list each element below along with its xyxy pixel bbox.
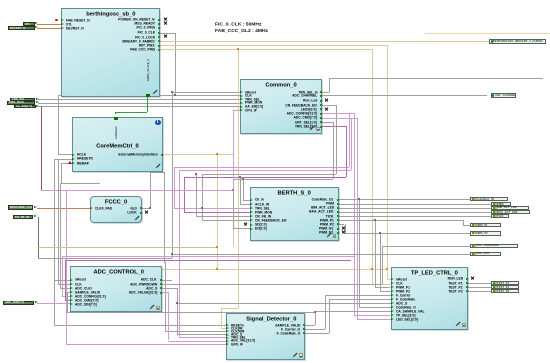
junction bbox=[216, 246, 218, 248]
wire bbox=[380, 233, 381, 291]
port PWM bbox=[491, 202, 511, 206]
wire bbox=[66, 190, 67, 344]
wire bbox=[320, 118, 351, 119]
wire bbox=[184, 177, 346, 178]
wire bbox=[38, 217, 39, 258]
X mark bbox=[341, 226, 345, 230]
wire bbox=[168, 341, 226, 342]
junction bbox=[149, 207, 151, 209]
wire bbox=[463, 225, 470, 226]
wire bbox=[345, 233, 471, 234]
wire bbox=[37, 303, 70, 304]
junction bbox=[195, 173, 197, 175]
junction bbox=[232, 189, 234, 191]
wire bbox=[320, 95, 487, 96]
wire bbox=[58, 284, 70, 285]
wire bbox=[243, 179, 244, 199]
block FCCC_0 bbox=[90, 196, 142, 223]
wire bbox=[38, 247, 217, 248]
junction bbox=[379, 232, 381, 234]
wire bbox=[466, 283, 491, 284]
wire bbox=[333, 122, 334, 180]
port ADC_CHANNEL bbox=[491, 93, 516, 97]
wire bbox=[233, 179, 234, 228]
port TRN_SEL bbox=[10, 98, 35, 101]
wire bbox=[351, 118, 352, 170]
port PWM_P1 bbox=[470, 223, 501, 228]
wire bbox=[67, 292, 71, 293]
wire bbox=[425, 33, 550, 34]
wire bbox=[58, 159, 59, 283]
wire bbox=[329, 299, 330, 333]
port BERTH_CLK bbox=[8, 205, 33, 210]
wire bbox=[58, 95, 59, 154]
wire bbox=[38, 99, 240, 100]
wire bbox=[147, 95, 148, 112]
junction bbox=[242, 178, 244, 180]
X mark bbox=[341, 230, 345, 234]
junction bbox=[216, 153, 218, 155]
wire bbox=[337, 224, 345, 225]
wire bbox=[337, 204, 491, 205]
block ADC_CONTROL_0 bbox=[70, 266, 162, 312]
wire bbox=[196, 174, 197, 216]
wire bbox=[233, 154, 234, 246]
wire bbox=[150, 172, 151, 208]
wire bbox=[466, 291, 491, 292]
junction bbox=[171, 91, 173, 93]
wire bbox=[357, 319, 391, 320]
wire bbox=[38, 103, 240, 104]
port MMUART_0_FABRIC bbox=[489, 39, 546, 44]
wire bbox=[329, 299, 391, 300]
wire bbox=[382, 246, 383, 284]
junction bbox=[216, 268, 218, 270]
wire bbox=[179, 337, 226, 338]
X mark bbox=[163, 18, 167, 22]
junction bbox=[239, 176, 241, 178]
wire bbox=[320, 113, 349, 114]
wire bbox=[240, 177, 241, 204]
wire bbox=[320, 105, 336, 106]
wire bbox=[466, 287, 491, 288]
wire bbox=[174, 167, 175, 207]
port TEST_P3 bbox=[491, 289, 519, 293]
wire bbox=[303, 329, 325, 330]
wire bbox=[37, 28, 61, 29]
block Signal_Detector_0 bbox=[226, 313, 305, 361]
wire bbox=[337, 220, 463, 221]
wire bbox=[54, 159, 72, 160]
junction bbox=[386, 268, 388, 270]
wire bbox=[320, 122, 333, 123]
wire bbox=[346, 126, 347, 177]
wire bbox=[337, 208, 491, 209]
junction bbox=[314, 311, 316, 313]
wire bbox=[320, 92, 329, 93]
wire bbox=[320, 113, 354, 114]
wire bbox=[238, 49, 239, 308]
wire bbox=[61, 163, 72, 164]
junction bbox=[176, 302, 178, 304]
wire bbox=[66, 344, 226, 345]
wire bbox=[179, 170, 180, 338]
block Common_0 bbox=[240, 79, 322, 134]
junction bbox=[171, 253, 173, 255]
port TEST_P1 bbox=[491, 281, 519, 285]
wire bbox=[337, 199, 470, 200]
wire bbox=[145, 269, 387, 270]
wire bbox=[41, 190, 233, 191]
wire bbox=[179, 170, 352, 171]
wire bbox=[165, 262, 166, 331]
wire bbox=[54, 280, 70, 281]
wire bbox=[160, 280, 172, 281]
wire bbox=[329, 78, 330, 92]
wire bbox=[243, 200, 251, 201]
junction bbox=[358, 198, 360, 200]
wire bbox=[345, 224, 346, 233]
wire bbox=[177, 288, 178, 334]
port TICK bbox=[491, 214, 509, 218]
wire bbox=[202, 220, 251, 221]
wire bbox=[164, 262, 165, 263]
wire bbox=[158, 49, 372, 50]
wire bbox=[66, 312, 315, 313]
REMAP marker bbox=[68, 161, 72, 164]
wire bbox=[65, 260, 66, 300]
wire bbox=[221, 328, 226, 329]
wire bbox=[160, 284, 382, 285]
wire bbox=[38, 106, 240, 107]
wire bbox=[67, 292, 68, 312]
wire bbox=[354, 113, 355, 315]
wire bbox=[158, 33, 175, 34]
wire bbox=[320, 118, 357, 119]
wire bbox=[58, 154, 72, 155]
wire bbox=[174, 208, 251, 209]
wire bbox=[172, 92, 241, 93]
wire bbox=[303, 325, 315, 326]
wire bbox=[38, 258, 172, 259]
wire bbox=[160, 292, 168, 293]
wire bbox=[359, 199, 360, 307]
wire bbox=[233, 110, 241, 111]
junction bbox=[201, 207, 203, 209]
junction bbox=[237, 48, 239, 50]
wire bbox=[320, 126, 346, 127]
annotation text bbox=[215, 21, 268, 34]
wire bbox=[60, 183, 61, 288]
block TP_LED_CTRL_0 bbox=[391, 267, 469, 330]
wire bbox=[65, 300, 71, 301]
wire bbox=[54, 159, 55, 325]
wire bbox=[115, 112, 147, 113]
wire bbox=[60, 183, 100, 184]
wire bbox=[202, 174, 336, 175]
wire bbox=[336, 105, 337, 174]
wire bbox=[196, 216, 250, 217]
wire bbox=[240, 204, 250, 205]
wire bbox=[233, 179, 333, 180]
wire bbox=[160, 288, 177, 289]
wire bbox=[62, 256, 354, 257]
block berthingosc_sb_0 bbox=[61, 8, 160, 97]
port PWR_MON bbox=[7, 101, 36, 104]
wire bbox=[337, 216, 491, 217]
wire bbox=[158, 41, 489, 42]
junction bbox=[374, 219, 376, 221]
wire bbox=[61, 163, 62, 183]
block CoreMemCtrl_0 bbox=[72, 117, 163, 172]
wire bbox=[65, 260, 352, 261]
wire bbox=[375, 220, 376, 287]
port PWM_P2 bbox=[470, 231, 501, 236]
port ADC_DIN bbox=[3, 301, 34, 306]
wire bbox=[172, 92, 173, 258]
wire bbox=[354, 315, 391, 316]
wire bbox=[202, 174, 203, 220]
block BERTH_S_0 bbox=[250, 187, 338, 240]
wire bbox=[463, 220, 464, 225]
X mark bbox=[144, 211, 148, 215]
junction bbox=[174, 94, 176, 96]
X mark bbox=[163, 35, 167, 39]
wire bbox=[325, 295, 326, 329]
port CodeRate_O1 bbox=[470, 197, 508, 202]
wire bbox=[349, 113, 350, 167]
port DEVRST_N bbox=[8, 26, 35, 30]
wire bbox=[161, 154, 233, 155]
wire bbox=[233, 228, 250, 229]
wire bbox=[168, 292, 169, 340]
wire bbox=[164, 172, 165, 263]
port BAA_ACT_LED bbox=[491, 210, 530, 214]
port ADC_CLK bbox=[470, 252, 501, 257]
port ADC_PWRDOWN bbox=[470, 244, 518, 249]
wire bbox=[184, 212, 251, 213]
port AA_EN bbox=[14, 105, 36, 108]
port XTL bbox=[23, 22, 35, 26]
wire bbox=[177, 334, 226, 335]
unconnected marker bbox=[55, 19, 58, 22]
wire bbox=[174, 167, 349, 168]
wire bbox=[325, 295, 391, 296]
wire bbox=[140, 208, 150, 209]
wire bbox=[184, 177, 185, 212]
wire bbox=[115, 112, 116, 114]
X mark bbox=[471, 277, 475, 281]
wire bbox=[357, 118, 358, 320]
wire bbox=[58, 95, 240, 96]
port CR_FB_IN bbox=[13, 215, 33, 219]
X mark bbox=[244, 222, 248, 226]
X mark bbox=[163, 22, 167, 26]
wire bbox=[375, 287, 390, 288]
wire bbox=[54, 325, 226, 326]
wire bbox=[372, 284, 391, 285]
port BIM_ACT_LED bbox=[491, 206, 529, 210]
wire bbox=[382, 246, 470, 247]
wire bbox=[172, 254, 471, 255]
X mark bbox=[324, 107, 328, 111]
wire bbox=[387, 45, 388, 279]
wire bbox=[221, 308, 238, 309]
wire bbox=[337, 212, 491, 213]
wire bbox=[41, 106, 42, 190]
wire bbox=[221, 308, 222, 328]
wire bbox=[315, 311, 391, 312]
port TEST_P2 bbox=[491, 285, 519, 289]
wire bbox=[58, 282, 59, 284]
wire bbox=[372, 49, 373, 283]
wire bbox=[217, 154, 218, 269]
wire bbox=[315, 312, 316, 325]
wire bbox=[37, 208, 91, 209]
junction bbox=[371, 268, 373, 270]
wire bbox=[165, 331, 226, 332]
wire bbox=[62, 256, 63, 296]
wire bbox=[177, 303, 391, 304]
wire bbox=[37, 24, 61, 25]
wire bbox=[359, 307, 391, 308]
wire bbox=[60, 288, 70, 289]
wire bbox=[175, 33, 176, 96]
wire bbox=[329, 78, 543, 79]
wire bbox=[303, 333, 329, 334]
wire bbox=[158, 45, 387, 46]
X mark bbox=[324, 98, 328, 102]
wire bbox=[150, 172, 164, 173]
wire bbox=[233, 110, 234, 190]
wire bbox=[62, 296, 70, 297]
wire bbox=[387, 279, 391, 280]
wire bbox=[380, 291, 391, 292]
